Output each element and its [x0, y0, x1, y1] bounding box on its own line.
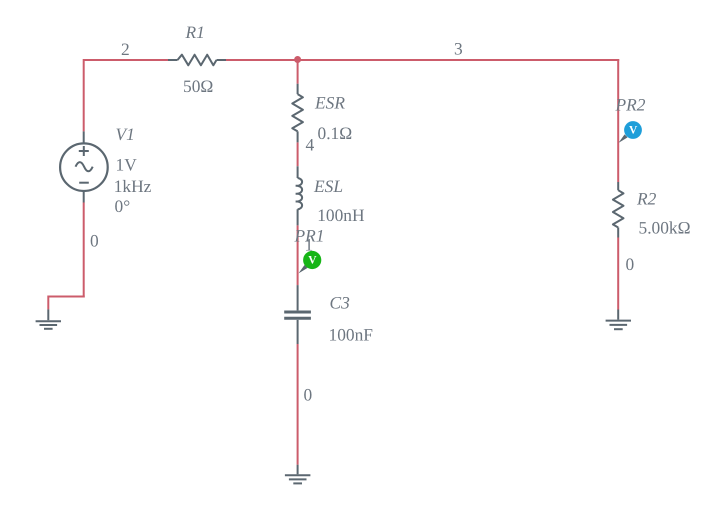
- wire left rail lower: [83, 203, 85, 298]
- svg-text:0: 0: [90, 231, 99, 251]
- svg-text:PR2: PR2: [615, 95, 646, 115]
- wire middle below C3: [297, 344, 299, 465]
- svg-text:ESR: ESR: [314, 93, 345, 113]
- svg-text:0.1Ω: 0.1Ω: [318, 123, 353, 143]
- wire middle rail top: [297, 59, 299, 84]
- ground (middle, under C3): [285, 465, 311, 484]
- wire middle between ESR and ESL: [297, 142, 299, 166]
- svg-text:0: 0: [626, 254, 635, 274]
- svg-text:2: 2: [121, 39, 130, 59]
- svg-text:1kHz: 1kHz: [114, 176, 152, 196]
- wire top-left horizontal (node 2): [84, 59, 168, 61]
- svg-text:100nF: 100nF: [329, 325, 374, 345]
- svg-text:V1: V1: [116, 124, 135, 144]
- probe PR1 (green voltage probe): [299, 251, 322, 274]
- capacitor C3: [284, 285, 311, 344]
- svg-text:1: 1: [305, 235, 314, 255]
- svg-text:50Ω: 50Ω: [183, 76, 213, 96]
- wire left jog vertical: [47, 296, 49, 310]
- wire left jog horizontal: [48, 296, 84, 298]
- ground (left, under V1): [36, 309, 61, 328]
- inductor ESL: [296, 166, 303, 225]
- wire right rail upper: [617, 59, 619, 182]
- svg-text:1V: 1V: [116, 155, 138, 175]
- svg-text:R2: R2: [636, 189, 657, 209]
- wire left rail upper: [83, 59, 85, 131]
- resistor R2: [613, 182, 624, 238]
- svg-text:5.00kΩ: 5.00kΩ: [639, 218, 691, 238]
- svg-text:C3: C3: [330, 293, 351, 313]
- wire top-middle to right corner (node 3): [226, 59, 619, 61]
- ground (right, under R2): [606, 310, 631, 330]
- junction node at R1 output / middle branch: [294, 56, 301, 63]
- svg-text:V: V: [629, 124, 638, 136]
- wire middle between ESL and C3: [297, 225, 299, 285]
- svg-text:ESL: ESL: [313, 176, 343, 196]
- wire right rail lower: [617, 238, 619, 310]
- svg-text:R1: R1: [185, 22, 205, 42]
- svg-text:4: 4: [306, 135, 315, 155]
- svg-text:100nH: 100nH: [317, 205, 365, 225]
- resistor ESR: [292, 84, 303, 143]
- svg-text:0: 0: [304, 385, 313, 405]
- resistor R1: [168, 55, 226, 66]
- svg-text:0°: 0°: [115, 196, 131, 216]
- svg-text:V: V: [308, 254, 317, 266]
- voltage source V1: [60, 131, 108, 202]
- probe PR2 (blue voltage probe): [619, 121, 642, 143]
- svg-text:3: 3: [454, 39, 463, 59]
